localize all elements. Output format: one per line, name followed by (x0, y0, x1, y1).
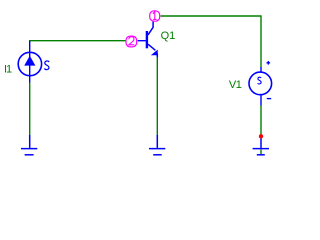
svg-text:Q1: Q1 (161, 30, 176, 42)
svg-text:I1: I1 (4, 64, 12, 76)
svg-text:V1: V1 (229, 79, 242, 91)
